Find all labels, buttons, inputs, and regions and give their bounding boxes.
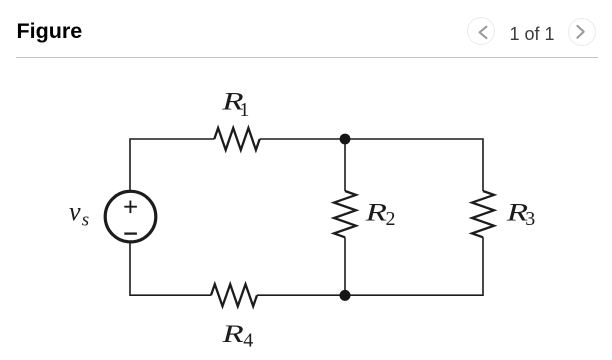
voltage source minus sign — [124, 232, 137, 234]
svg-text:2: 2 — [386, 208, 396, 230]
resistor R2 (vertical zigzag, middle branch) — [334, 191, 356, 237]
svg-text:s: s — [82, 210, 89, 231]
svg-text:R: R — [221, 320, 244, 348]
svg-text:v: v — [69, 197, 81, 226]
svg-text:3: 3 — [525, 208, 535, 230]
svg-text:1: 1 — [239, 99, 249, 121]
svg-text:4: 4 — [243, 330, 253, 352]
wire: top-left segment (source to corner to R1) — [130, 139, 214, 191]
header title "Figure" — [17, 19, 83, 44]
next page button — [568, 18, 596, 46]
resistor R1 (horizontal zigzag, top wire) — [214, 128, 259, 150]
wire: top segment (R1 to node A to top-right corner) — [260, 139, 483, 191]
header separator rule — [16, 57, 598, 58]
resistor R3 (vertical zigzag, right branch) — [472, 191, 494, 237]
prev chevron — [0, 0, 612, 60]
voltage source vs (circle) — [105, 191, 156, 242]
wire: left-bottom segment (source to corner to R4) — [130, 243, 211, 296]
node A (top junction dot) — [340, 134, 351, 145]
voltage source plus sign — [124, 201, 137, 214]
next chevron — [577, 26, 583, 38]
wire: middle branch top (node A to R2) — [344, 139, 346, 191]
resistor R4 (horizontal zigzag, bottom wire) — [211, 284, 257, 306]
svg-text:R: R — [364, 198, 387, 226]
wire: middle branch bottom (R2 to node B) — [344, 237, 346, 295]
wire: bottom segment (R4 to node B to bottom-right corner) — [257, 237, 483, 295]
page indicator "1 of 1" — [502, 24, 562, 44]
node B (bottom junction dot) — [340, 290, 351, 301]
prev page button — [467, 17, 495, 45]
